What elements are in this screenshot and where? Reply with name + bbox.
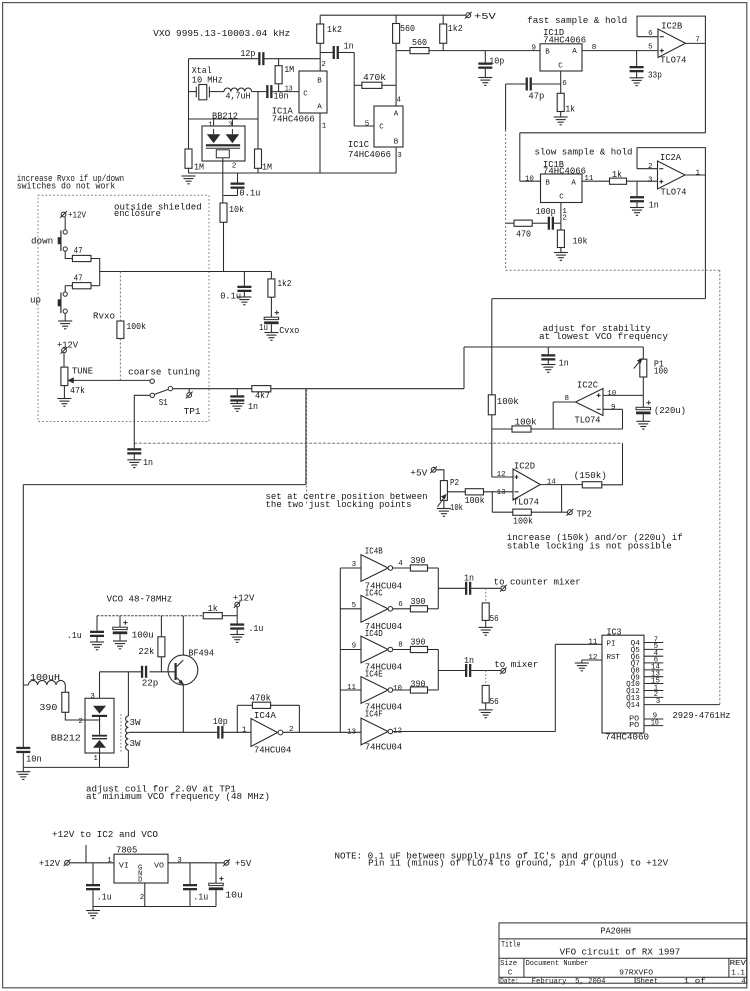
svg-text:74HC4066: 74HC4066 bbox=[543, 166, 586, 176]
wire VCO bottom rail bbox=[23, 766, 128, 768]
wire 1n to terminal bbox=[471, 587, 501, 589]
svg-text:47: 47 bbox=[74, 273, 83, 283]
svg-text:2: 2 bbox=[648, 163, 653, 171]
svg-text:9: 9 bbox=[532, 45, 537, 53]
wire RST ground stub bbox=[581, 660, 583, 663]
wire IC4A feedback left bbox=[236, 705, 238, 732]
resistor 1M left bbox=[185, 149, 192, 168]
svg-text:IC4D: IC4D bbox=[365, 629, 383, 639]
svg-text:stable locking is not possible: stable locking is not possible bbox=[507, 541, 672, 551]
wire IC1B pin12 control bbox=[560, 203, 562, 231]
shield line right down to Q14 bbox=[719, 270, 721, 704]
potentiometer TUNE 47k bbox=[61, 367, 68, 386]
wire 22k bottom bbox=[160, 657, 162, 672]
wire 1M left bottom bbox=[188, 168, 190, 173]
svg-text:2: 2 bbox=[232, 162, 237, 170]
wire slow out across bbox=[492, 298, 706, 300]
capacitor 47p bbox=[526, 78, 532, 91]
resistor 390 bbox=[410, 606, 427, 612]
ground 220u bbox=[636, 421, 650, 429]
svg-text:100k: 100k bbox=[126, 322, 146, 332]
wire 0.1u mid ground bbox=[243, 292, 245, 297]
capacitor 33p bbox=[630, 66, 644, 72]
capacitor 10p fast bbox=[478, 63, 492, 69]
wire 1k2 to Cvxo bbox=[270, 297, 272, 317]
wire 10u down bbox=[215, 890, 217, 906]
svg-text:REV: REV bbox=[730, 960, 747, 968]
resistor 560 mid bbox=[393, 24, 400, 44]
wire 390 to join bbox=[428, 567, 439, 569]
capacitor 1n top bbox=[333, 46, 339, 59]
wire 10k to ground bbox=[560, 248, 562, 253]
wire 100uH left bbox=[23, 684, 28, 686]
svg-text:VO: VO bbox=[154, 863, 164, 871]
resistor 100k IC2D feedback bbox=[513, 509, 532, 515]
shield line bottom bbox=[506, 269, 720, 271]
wire .1u in stub bbox=[92, 863, 94, 884]
ground 1k fast bbox=[554, 117, 568, 125]
wire 1k2 right bottom bbox=[442, 43, 444, 50]
polarized capacitor 100u bbox=[113, 620, 128, 634]
svg-text:47: 47 bbox=[74, 246, 83, 256]
wire to 1n mixer bbox=[438, 670, 465, 672]
coil core dashed line bbox=[120, 714, 122, 752]
wire 10k down to rail bbox=[223, 222, 225, 271]
wire 56 lower ground bbox=[485, 703, 487, 710]
svg-text:2: 2 bbox=[140, 894, 145, 902]
svg-text:to counter mixer: to counter mixer bbox=[494, 578, 581, 588]
wire S1 to 1n lower bbox=[134, 395, 150, 448]
svg-text:Rvxo: Rvxo bbox=[93, 311, 115, 321]
wire base bbox=[150, 671, 176, 673]
shield line control drop bbox=[306, 390, 308, 506]
svg-text:11: 11 bbox=[347, 684, 357, 692]
wire BB212 pin1 stub bbox=[213, 119, 215, 126]
svg-text:1M: 1M bbox=[194, 163, 204, 173]
wire 1n stability to ground bbox=[547, 361, 549, 365]
svg-text:IC4E: IC4E bbox=[365, 670, 383, 680]
svg-text:3: 3 bbox=[352, 561, 357, 569]
wire IC4E output bbox=[393, 689, 411, 691]
contact S1 pole bbox=[168, 386, 172, 390]
varicap diode pair BB212 VXO bbox=[202, 126, 245, 161]
wire Q7 pin bbox=[644, 662, 663, 664]
resistor 1k slow bbox=[610, 178, 627, 184]
capacitor 100p bbox=[548, 217, 554, 230]
wire Q14 output bbox=[644, 704, 720, 706]
svg-text:10: 10 bbox=[651, 719, 659, 727]
svg-text:3W: 3W bbox=[130, 739, 142, 749]
wire 1k to IC2A pin3 bbox=[627, 180, 658, 182]
svg-text:100k: 100k bbox=[465, 496, 485, 506]
svg-text:C: C bbox=[559, 193, 564, 201]
wire 10u stub bbox=[215, 863, 217, 883]
svg-text:1: 1 bbox=[93, 755, 98, 763]
wire 10p to ground bbox=[484, 69, 486, 78]
resistor Rvxo 100k bbox=[117, 321, 124, 339]
svg-text:C: C bbox=[303, 90, 308, 98]
svg-text:10u: 10u bbox=[225, 890, 243, 900]
analog switch IC1B 74HC4066 bbox=[541, 174, 583, 203]
wire control down left side bbox=[22, 485, 24, 747]
svg-text:IC2D: IC2D bbox=[514, 461, 535, 471]
wire IC2C pin9 bbox=[603, 408, 623, 410]
wire Xtal to 4,7uH bbox=[209, 91, 224, 93]
wire to 1n top cap bbox=[320, 52, 332, 54]
svg-text:PO: PO bbox=[629, 722, 639, 730]
svg-text:VCO 48-78MHz: VCO 48-78MHz bbox=[107, 595, 173, 605]
svg-text:1n: 1n bbox=[649, 201, 659, 211]
wire 470 to 100p bbox=[532, 222, 548, 224]
wire 4,7uH to 10n bbox=[252, 91, 267, 93]
pushbutton switch down bbox=[58, 230, 68, 251]
wire psu ground stub bbox=[92, 907, 94, 911]
ground 56 upper bbox=[479, 627, 493, 635]
terminal to mixer bbox=[500, 667, 507, 674]
terminal +12V down switch bbox=[60, 211, 67, 218]
wire 56 lower stub bbox=[485, 671, 487, 686]
resistor 560 horizontal bbox=[410, 48, 429, 54]
svg-text:TLO74: TLO74 bbox=[661, 188, 687, 198]
wire 4k7 to stability bbox=[271, 388, 464, 390]
dotted enclosure box bbox=[38, 195, 209, 421]
svg-text:1: 1 bbox=[242, 726, 247, 734]
svg-text:390: 390 bbox=[39, 703, 57, 713]
op-amp IC2B TL074 bbox=[658, 29, 685, 58]
wire control down bbox=[305, 389, 307, 485]
wire up switch to ground bbox=[64, 313, 66, 321]
wire PO pin 9 bbox=[644, 718, 663, 720]
wire control across bbox=[23, 484, 306, 486]
svg-text:33p: 33p bbox=[648, 70, 662, 80]
wire psu ground rail bbox=[93, 906, 216, 908]
wire IC1C pin5 bbox=[354, 125, 374, 127]
wire 470k right bbox=[382, 84, 396, 86]
svg-text:390: 390 bbox=[411, 637, 426, 647]
svg-text:February 5, 2004: February 5, 2004 bbox=[532, 978, 606, 986]
capacitor .1u psu in bbox=[86, 884, 100, 890]
inductor 100uH bbox=[28, 680, 65, 685]
svg-text:TLO74: TLO74 bbox=[660, 55, 686, 65]
svg-text:1n: 1n bbox=[143, 458, 153, 468]
wire 390 to join bbox=[428, 649, 439, 651]
svg-text:IC2A: IC2A bbox=[660, 153, 682, 163]
wire IC2B output bbox=[685, 42, 705, 44]
wire PO pin 10 bbox=[644, 725, 663, 727]
wire 470 left bbox=[506, 222, 514, 224]
svg-text:the two just locking points: the two just locking points bbox=[266, 500, 412, 510]
wire 1n mixer to terminal bbox=[471, 670, 501, 672]
svg-text:1.1: 1.1 bbox=[731, 969, 745, 977]
svg-text:1M: 1M bbox=[262, 163, 272, 173]
ground .1u VCO left bbox=[90, 642, 104, 650]
resistor 100k IC2D input bbox=[465, 489, 483, 495]
svg-text:Size: Size bbox=[500, 960, 517, 968]
svg-text:12: 12 bbox=[588, 654, 597, 662]
svg-text:12p: 12p bbox=[240, 49, 255, 59]
svg-text:1n: 1n bbox=[559, 358, 569, 368]
wire stability top bbox=[464, 346, 643, 348]
capacitor .1u psu out bbox=[183, 884, 197, 890]
svg-text:1n: 1n bbox=[248, 402, 258, 412]
wire 10n to IC1A pin13 bbox=[273, 91, 299, 93]
svg-text:10p: 10p bbox=[213, 717, 228, 727]
svg-text:IC4C: IC4C bbox=[365, 589, 383, 599]
resistor 1M top bbox=[275, 66, 282, 84]
ground 10k slow bbox=[554, 253, 568, 261]
svg-text:100k: 100k bbox=[515, 417, 537, 427]
wire Q8 pin bbox=[644, 669, 663, 671]
svg-text:2: 2 bbox=[562, 215, 567, 223]
svg-text:BF494: BF494 bbox=[188, 649, 214, 659]
wire IC4B input bbox=[340, 567, 361, 569]
svg-text:.1u: .1u bbox=[67, 631, 82, 641]
ground Cvxo bbox=[264, 333, 278, 341]
wire 560 bottom bbox=[395, 43, 397, 50]
wire 22p left bbox=[100, 671, 141, 673]
op-amp IC2A TL074 bbox=[658, 161, 686, 189]
wire IC2A output bbox=[685, 174, 705, 176]
resistor 1k fast bbox=[557, 93, 564, 111]
wire 1n lower ground bbox=[133, 455, 135, 460]
wire .1u out down bbox=[189, 890, 191, 906]
svg-text:74HC4066: 74HC4066 bbox=[272, 114, 315, 124]
wire IC3 RST bbox=[582, 659, 602, 661]
wire feedback left bbox=[492, 511, 513, 513]
resistor 1k2 right bbox=[440, 24, 447, 43]
svg-text:560: 560 bbox=[400, 24, 415, 34]
wire BB212 VCO pin2 bbox=[85, 719, 100, 721]
svg-text:coarse tuning: coarse tuning bbox=[128, 368, 200, 378]
wire BB212 pin1 down bbox=[99, 753, 101, 767]
wire 1n stub IC2A bbox=[636, 181, 638, 196]
svg-text:56: 56 bbox=[490, 697, 499, 707]
svg-text:4: 4 bbox=[397, 96, 402, 104]
wire 100uH to 390 bbox=[64, 685, 66, 692]
wire 1k to +12V bbox=[222, 615, 237, 617]
wire 390 to join bbox=[428, 608, 439, 610]
svg-text:A: A bbox=[571, 180, 576, 188]
varicap diode pair BB212 VCO bbox=[85, 698, 114, 753]
ground 1n stability bbox=[541, 365, 555, 373]
svg-text:IC2B: IC2B bbox=[661, 21, 682, 31]
ground 100u bbox=[113, 641, 127, 649]
capacitor 1n mixer bbox=[465, 664, 471, 677]
svg-text:10: 10 bbox=[525, 176, 534, 184]
wire IC2A output down bbox=[704, 175, 706, 299]
wire IC2D pin12 bbox=[492, 476, 513, 478]
resistor 10k VXO bias bbox=[220, 203, 227, 222]
svg-text:Cvxo: Cvxo bbox=[279, 326, 299, 336]
op-amp IC2D TL074 bbox=[513, 469, 540, 500]
wire up to stability block bbox=[463, 347, 465, 389]
capacitor 1n counter mixer bbox=[465, 582, 471, 595]
svg-text:11: 11 bbox=[588, 638, 597, 646]
polarized capacitor 220u bbox=[636, 401, 651, 415]
wire to 220u bbox=[642, 395, 644, 407]
wire left rail bbox=[188, 59, 190, 149]
resistor 4k7 bbox=[252, 386, 271, 392]
wire +12V to 7805 bbox=[69, 862, 114, 864]
capacitor .1u VCO left bbox=[90, 631, 104, 637]
svg-text:RST: RST bbox=[607, 654, 621, 662]
svg-text:1k2: 1k2 bbox=[448, 24, 463, 34]
svg-text:1 of: 1 of bbox=[684, 978, 706, 986]
ground .1u VCO right bbox=[230, 635, 244, 643]
wire IC4A feedback right bbox=[298, 705, 300, 732]
resistor 1M right bbox=[255, 149, 262, 168]
svg-text:8: 8 bbox=[398, 642, 403, 650]
svg-text:2929-4761Hz: 2929-4761Hz bbox=[673, 711, 731, 721]
wire IC4A output to bus bbox=[283, 731, 361, 733]
svg-text:100p: 100p bbox=[536, 207, 556, 217]
svg-text:390: 390 bbox=[411, 556, 426, 566]
svg-text:3: 3 bbox=[648, 176, 653, 184]
svg-text:100uH: 100uH bbox=[30, 673, 60, 683]
wire IC2A pin2 bbox=[637, 168, 658, 170]
svg-text:Document Number: Document Number bbox=[526, 960, 589, 968]
inductor VCO coil 3W+3W bbox=[126, 716, 129, 750]
analog switch IC1C 74HC4066 bbox=[374, 106, 403, 147]
wire 0.1u to pin2 line bbox=[224, 195, 238, 197]
wire +12V down bbox=[236, 607, 238, 624]
svg-text:1: 1 bbox=[696, 169, 701, 177]
svg-text:.1u: .1u bbox=[248, 624, 263, 634]
varicap diodes BB212 VCO internals bbox=[92, 706, 107, 753]
svg-text:47p: 47p bbox=[528, 92, 544, 102]
inverter IC4D 74HCU04 bbox=[361, 636, 393, 663]
wire 1n S1 stub bbox=[236, 389, 238, 396]
resistor 390 bbox=[410, 646, 427, 652]
wire 0.1u mid stub bbox=[243, 272, 245, 286]
wire +5V rail bbox=[320, 14, 466, 16]
svg-text:A: A bbox=[572, 48, 577, 56]
svg-text:Sheet: Sheet bbox=[636, 978, 658, 986]
svg-text:5: 5 bbox=[648, 44, 653, 52]
wire node down to IC1C pin5 bbox=[353, 53, 355, 127]
terminal +12V VCO bbox=[234, 601, 241, 608]
svg-text:at lowest VCO frequency: at lowest VCO frequency bbox=[539, 332, 669, 342]
svg-text:1k2: 1k2 bbox=[327, 25, 342, 35]
resistor 470k top bbox=[362, 82, 382, 88]
svg-text:TP2: TP2 bbox=[577, 510, 592, 520]
wiper arrow P1 bbox=[634, 359, 642, 369]
svg-text:13: 13 bbox=[285, 85, 293, 93]
svg-text:enclosure: enclosure bbox=[114, 209, 161, 219]
wire Q9 pin bbox=[644, 676, 663, 678]
svg-text:1k: 1k bbox=[565, 104, 575, 114]
wire to BB212 VCO pin3 bbox=[99, 672, 101, 699]
inverter IC4E 74HCU04 bbox=[361, 677, 393, 704]
terminal to counter mixer bbox=[500, 585, 507, 592]
svg-text:100: 100 bbox=[654, 366, 668, 376]
svg-text:56: 56 bbox=[490, 614, 499, 624]
capacitor 1n IC2A input bbox=[630, 196, 644, 202]
svg-text:2: 2 bbox=[78, 718, 83, 726]
wire 1n S1 ground bbox=[236, 402, 238, 404]
wire tank tap to 10p bbox=[128, 731, 217, 733]
ground TUNE bbox=[57, 399, 71, 407]
wire join IC4D IC4E bbox=[437, 650, 439, 691]
svg-text:BB212: BB212 bbox=[51, 733, 81, 743]
wire S1 pole right bbox=[173, 388, 252, 390]
wire IC1C pin3 to ground rail bbox=[395, 147, 397, 173]
wire to ground VCO bbox=[22, 767, 24, 771]
wire 1k to ground bbox=[560, 112, 562, 118]
svg-text:7805: 7805 bbox=[116, 846, 137, 856]
analog switch IC1D 74HC4066 bbox=[540, 44, 582, 71]
svg-text:22k: 22k bbox=[138, 647, 154, 657]
wire 47p left bbox=[506, 83, 526, 85]
svg-text:+12V: +12V bbox=[68, 211, 87, 221]
svg-text:+12V to IC2 and VCO: +12V to IC2 and VCO bbox=[52, 830, 158, 840]
wire 47p right bbox=[532, 83, 561, 85]
wire 12p right bbox=[265, 58, 321, 60]
capacitor 22p bbox=[141, 666, 147, 678]
varicap cathode line BB212 VXO bbox=[206, 129, 240, 158]
ground 10p bbox=[478, 78, 492, 86]
title block bbox=[499, 923, 747, 983]
svg-text:1M: 1M bbox=[284, 65, 294, 75]
svg-text:1k2: 1k2 bbox=[277, 279, 291, 289]
svg-text:74HC4066: 74HC4066 bbox=[348, 150, 391, 160]
varicap anodes BB212 VXO bbox=[206, 134, 240, 146]
resistor 100k IC2C bbox=[512, 426, 531, 432]
wire .1u out stub bbox=[189, 863, 191, 884]
svg-text:to mixer: to mixer bbox=[494, 660, 538, 670]
svg-text:down: down bbox=[31, 236, 53, 246]
wire 470k left bbox=[237, 704, 252, 706]
svg-text:1u: 1u bbox=[259, 323, 268, 333]
svg-text:13: 13 bbox=[497, 489, 506, 497]
svg-text:6: 6 bbox=[562, 80, 567, 88]
svg-text:2: 2 bbox=[321, 61, 326, 69]
wire right rail bbox=[257, 92, 259, 149]
wire down switch to 47 bbox=[65, 251, 72, 258]
wire 1k2 right top bbox=[442, 15, 444, 24]
svg-text:1n: 1n bbox=[344, 42, 354, 52]
terminal TP1 bbox=[186, 392, 193, 399]
svg-text:10n: 10n bbox=[26, 754, 42, 764]
svg-text:B: B bbox=[545, 180, 550, 188]
wire IC1B pin11 to 1k bbox=[582, 180, 610, 182]
ground RST bbox=[575, 663, 589, 671]
resistor 390 VCO bbox=[62, 692, 69, 712]
svg-text:Pin 11 (minus) of TLO74 to gro: Pin 11 (minus) of TLO74 to ground, pin 4… bbox=[368, 859, 669, 869]
wire 33p stub bbox=[636, 51, 638, 66]
ground up switch bbox=[58, 321, 72, 329]
wire 7805 output bbox=[168, 862, 224, 864]
wire 1n stability stub bbox=[547, 347, 549, 354]
wire +12V to down switch bbox=[64, 217, 66, 230]
wire 47p node down bbox=[505, 84, 507, 130]
terminal +12V tune bbox=[61, 347, 68, 354]
wire IC1A pin1 to ground rail bbox=[319, 113, 321, 173]
svg-text:switches do not work: switches do not work bbox=[17, 181, 116, 191]
transistor Q1 BF494 bbox=[168, 655, 198, 685]
wire IC2A feedback loop bbox=[637, 148, 705, 175]
wire IC2D pin13 bbox=[484, 491, 514, 493]
svg-text:.1u: .1u bbox=[193, 893, 208, 903]
polarized capacitor Cvxo 1u bbox=[264, 310, 279, 324]
potentiometer P2 10k bbox=[440, 481, 447, 501]
wire 390 to join bbox=[428, 689, 439, 691]
wire 470k left bbox=[354, 84, 362, 86]
svg-text:10p: 10p bbox=[489, 57, 504, 67]
analog switch IC1A 74HC4066 bbox=[299, 71, 327, 113]
wire 1k2 left bottom to IC1A pin2 bbox=[319, 43, 321, 71]
wire 56 upper stub bbox=[485, 588, 487, 603]
